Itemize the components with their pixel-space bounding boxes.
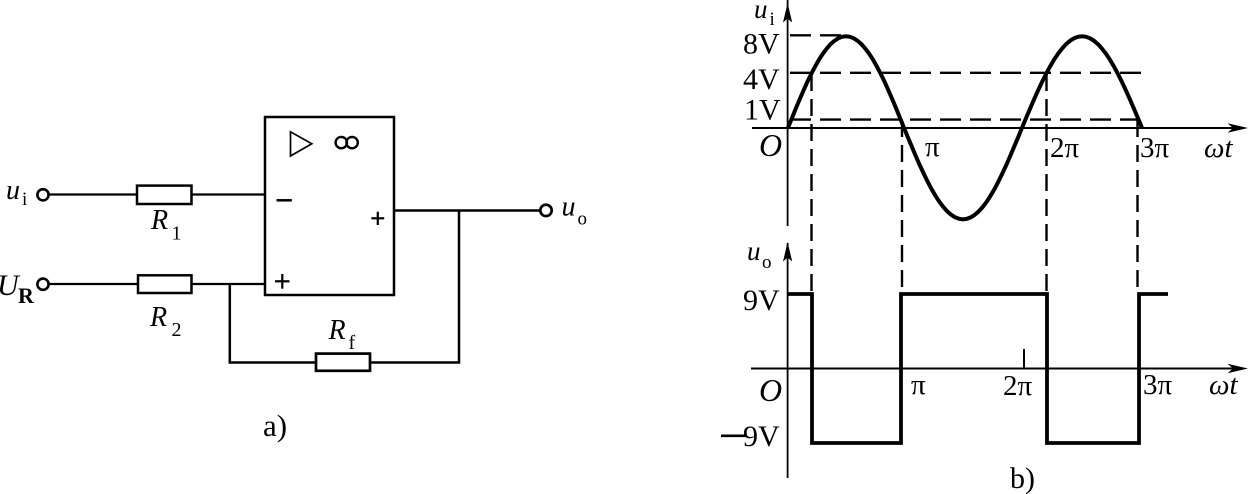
svg-text:R: R [150, 205, 168, 236]
op-amp infinity gain symbol [336, 137, 347, 148]
svg-text:O: O [759, 372, 782, 408]
wire R2 to op-amp noninverting input [192, 283, 266, 285]
svg-text:u: u [747, 236, 761, 266]
wire ui to R1 [50, 193, 138, 195]
svg-text:3π: 3π [1140, 132, 1170, 164]
dashed marker at first 1V crossing [901, 120, 903, 293]
wire R1 to op-amp inverting input [192, 193, 266, 195]
svg-text:1V: 1V [744, 94, 781, 127]
curve uo square wave [788, 294, 1168, 443]
tick 2pi (bottom axis) [1023, 349, 1025, 368]
svg-text:O: O [759, 127, 782, 163]
svg-text:2π: 2π [1050, 132, 1080, 164]
svg-text:1: 1 [172, 223, 182, 245]
curve ui sine wave [788, 36, 1142, 219]
op-amp triangle symbol [291, 132, 312, 156]
svg-text:o: o [762, 252, 772, 273]
svg-text:8V: 8V [743, 28, 780, 61]
dashed marker at second 1V crossing [1136, 120, 1138, 293]
axis x (bottom graph) [751, 368, 1242, 370]
axis y (top graph) [787, 0, 789, 226]
svg-text:R: R [149, 302, 167, 333]
svg-text:b): b) [1010, 462, 1035, 494]
gridline 1V dashed [790, 118, 1137, 120]
node ui terminal [37, 189, 48, 200]
svg-text:ωt: ωt [1204, 132, 1233, 164]
wire feedback bottom right [370, 361, 460, 364]
op-amp plus sign (noninverting input) [275, 280, 290, 282]
svg-text:π: π [911, 369, 926, 401]
op-amp minus sign (inverting input) [277, 199, 292, 202]
wire UR to R2 [50, 283, 139, 285]
svg-text:u: u [754, 0, 768, 24]
resistor R2 [138, 275, 192, 293]
wire feedback tap vertical [458, 211, 461, 363]
svg-text:9V: 9V [743, 284, 780, 317]
svg-text:3π: 3π [1143, 369, 1173, 401]
svg-text:ωt: ωt [1209, 369, 1238, 401]
dashed marker at first 4V crossing [810, 74, 812, 293]
svg-text:π: π [925, 131, 940, 163]
svg-text:o: o [578, 209, 588, 230]
svg-text:f: f [349, 332, 356, 354]
gridline 4V dashed [790, 72, 1150, 74]
op-amp U1 body [265, 117, 394, 295]
gridline 8V dashed [790, 34, 846, 36]
svg-text:R: R [328, 315, 346, 346]
svg-text:9V: 9V [743, 420, 780, 453]
axis y (bottom graph) [787, 243, 789, 478]
label minus 9V level [721, 434, 746, 437]
svg-text:2: 2 [172, 319, 182, 341]
dashed marker at second 4V crossing [1045, 74, 1047, 293]
axis x (top graph) [752, 127, 1242, 129]
svg-text:2π: 2π [1003, 370, 1033, 402]
svg-text:4V: 4V [743, 63, 780, 96]
resistor R1 [137, 186, 192, 204]
wire feedback bottom left [229, 361, 316, 364]
wire junction vertical from noninverting node [229, 284, 232, 363]
svg-text:a): a) [263, 408, 287, 443]
resistor Rf [316, 354, 370, 371]
svg-text:u: u [562, 192, 576, 223]
wire op-amp output to uo terminal [394, 209, 540, 212]
svg-text:i: i [22, 189, 27, 210]
svg-text:u: u [6, 175, 20, 206]
op-amp plus sign (output polarity) [371, 217, 384, 219]
svg-text:R: R [18, 283, 35, 308]
node uo terminal [540, 205, 551, 216]
node UR terminal [37, 279, 48, 290]
